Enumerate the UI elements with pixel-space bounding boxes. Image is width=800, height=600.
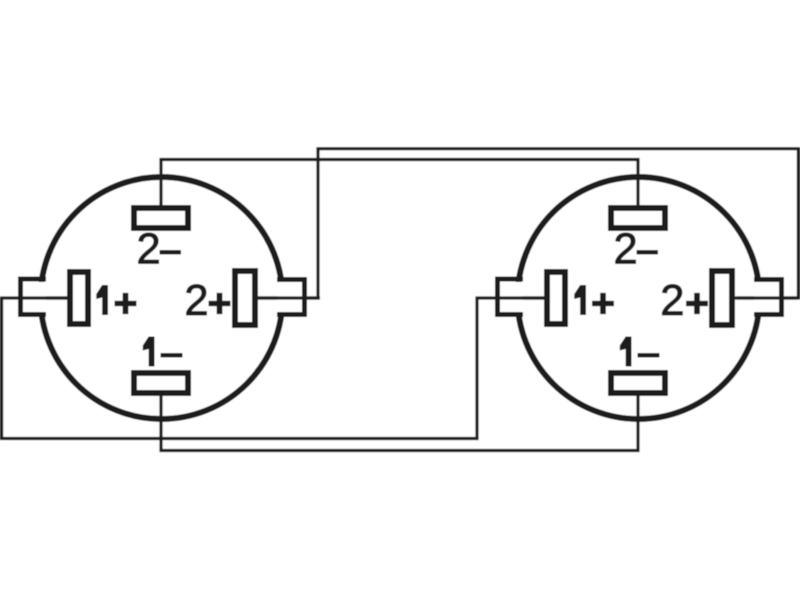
terminal J1 1+ (left rectangle) xyxy=(70,272,88,324)
terminal J2 1- (bottom rectangle) xyxy=(611,373,665,393)
connector J2 left tab (cable entry notch) with 1+ wire stub xyxy=(498,279,545,315)
connector J1 right tab (keyway notch) with 2+ wire stub xyxy=(256,280,320,315)
connector J2 shell (right speaker connector circle) xyxy=(518,177,760,419)
terminal J1 2- (top rectangle) xyxy=(134,208,188,228)
label J2 pin 1- xyxy=(620,337,660,367)
wire: 1- bus (left J1 pin 1- to right J2 pin 1-) xyxy=(161,394,638,451)
label J2 pin 2- xyxy=(613,226,658,274)
wire: 2- bus (left J1 pin 2- to right J2 pin 2-) xyxy=(161,160,638,209)
wire: 1+ bus (left J1 pin 1+ left tab, down along left edge and bottom, to right J2 pin 1+ left tab) xyxy=(2,298,546,439)
svg-text:2: 2 xyxy=(613,226,637,274)
terminal J2 2+ (right rectangle) xyxy=(712,271,732,325)
label J1 pin 1+ xyxy=(96,285,136,315)
label J1 pin 2+ xyxy=(184,277,230,325)
connector J2 right tab (keyway notch) with 2+ wire stub xyxy=(733,280,797,315)
terminal J1 1- (bottom rectangle) xyxy=(134,373,188,393)
label J2 pin 1+ xyxy=(574,285,614,315)
terminal J2 2- (top rectangle) xyxy=(611,208,665,228)
terminal J1 2+ (right rectangle) xyxy=(235,271,255,325)
svg-text:2: 2 xyxy=(136,226,160,274)
label J1 pin 1- xyxy=(143,337,183,367)
connector J1 left tab (cable entry notch) with 1+ wire stub xyxy=(21,279,68,315)
label J1 pin 2- xyxy=(136,226,181,274)
wire: 2+ bus (left J1 pin 2+ right tab, up over the top, to right J2 pin 2+ right tab) xyxy=(256,149,798,298)
terminal J2 1+ (left rectangle) xyxy=(547,272,565,324)
connector J1 shell (left speaker connector circle) xyxy=(41,177,283,419)
label J2 pin 2+ xyxy=(660,277,708,325)
svg-text:2: 2 xyxy=(184,277,208,325)
svg-text:2: 2 xyxy=(660,277,684,325)
